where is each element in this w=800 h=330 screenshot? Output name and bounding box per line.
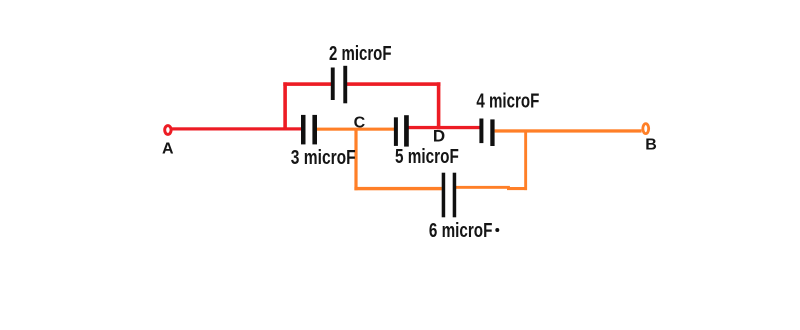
- svg-text:D: D: [433, 127, 445, 146]
- svg-text:6 microF: 6 microF: [429, 220, 493, 242]
- svg-text:A: A: [162, 140, 174, 157]
- svg-text:B: B: [645, 137, 657, 154]
- svg-text:4 microF: 4 microF: [476, 91, 539, 113]
- svg-text:C: C: [354, 115, 366, 132]
- svg-text:2 microF: 2 microF: [329, 43, 392, 65]
- svg-text:5 microF: 5 microF: [395, 146, 459, 168]
- svg-text:3 microF: 3 microF: [291, 147, 356, 169]
